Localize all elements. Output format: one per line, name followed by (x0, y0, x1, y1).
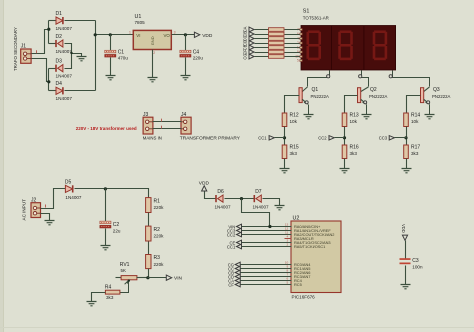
resistor R2 (146, 226, 165, 241)
resistor R14 (404, 112, 421, 126)
svg-text:5: 5 (286, 281, 288, 285)
svg-text:22u: 22u (113, 229, 121, 234)
svg-text:RC5: RC5 (294, 282, 302, 287)
node terminal CE (243, 44, 254, 50)
node junction CC3 (404, 136, 407, 139)
node junction CC1 (283, 136, 286, 139)
svg-text:220u: 220u (193, 56, 204, 61)
node junction CC2 (343, 136, 346, 139)
node display pin circle Q1 (327, 75, 330, 78)
node junction J1.1 (47, 28, 50, 31)
diode D7 (253, 189, 270, 210)
wire display digit pin Q2 (362, 71, 369, 87)
wire VIN to RA0 (242, 226, 292, 228)
wire R3 to VIN node (148, 269, 150, 278)
ground R16 (340, 169, 350, 173)
wire display digit pin Q3 (393, 71, 430, 87)
ground bridge center (77, 57, 87, 61)
node terminal CC1 (258, 136, 274, 141)
wire U1 VO to VDD (172, 34, 195, 36)
wire clamp to VIN line (242, 199, 270, 227)
transistor Q3 PN2222A (421, 87, 451, 105)
wire Q3 base (407, 96, 421, 114)
capacitor C2 (100, 221, 121, 233)
connector J1 (21, 44, 31, 64)
svg-text:TOT5361-AR: TOT5361-AR (303, 16, 329, 21)
svg-text:100n: 100n (412, 264, 423, 269)
op-amp U1 7805 regulator (129, 14, 176, 55)
wire C2 top (105, 189, 107, 222)
wire J1 pin1 to D1/D2 node (32, 30, 49, 54)
svg-text:Q1: Q1 (312, 87, 319, 93)
svg-text:R13: R13 (350, 112, 359, 118)
wire VDD to D6 (205, 192, 217, 199)
wire CC2 (335, 137, 345, 139)
node pin number mark J2 (45, 205, 47, 208)
node terminal CD in (228, 274, 240, 279)
ground C4 (181, 76, 191, 80)
wire CG to resistor (255, 56, 269, 58)
wire CE to U2 (242, 242, 292, 244)
connector J3 (143, 112, 162, 140)
node terminal CD (243, 40, 254, 46)
svg-text:CG: CG (243, 53, 248, 59)
svg-text:D1: D1 (56, 11, 63, 17)
wire D3 left (49, 68, 57, 70)
ground J2 (45, 221, 55, 225)
node junction C2 tap (104, 187, 107, 190)
node terminal VIN out (166, 275, 182, 282)
node terminal CB in (228, 270, 240, 275)
wire CD to U2 (241, 276, 292, 278)
svg-text:S1: S1 (303, 9, 310, 15)
ground Q2 emitter (362, 115, 372, 119)
wire display digit pin Q1 (308, 71, 330, 87)
node junction + bus (94, 33, 97, 36)
wire CF to resistor (255, 52, 269, 54)
svg-text:5K: 5K (121, 268, 126, 273)
svg-text:PN2222A: PN2222A (369, 94, 388, 99)
svg-text:D5: D5 (65, 179, 72, 185)
svg-text:1: 1 (129, 31, 131, 35)
svg-text:C2: C2 (113, 222, 120, 228)
svg-text:3k3: 3k3 (411, 151, 419, 156)
ground Q1 emitter (304, 115, 314, 119)
wire C4 top (185, 35, 187, 51)
node terminal CB (243, 31, 254, 37)
wire D1 left (49, 20, 57, 22)
wire C4 bottom (185, 58, 187, 76)
diode D5 (65, 179, 82, 200)
wire D5 to R1 (75, 189, 149, 198)
svg-text:5: 5 (297, 59, 299, 63)
wire R14 to R17 (406, 127, 408, 146)
svg-text:R12: R12 (290, 112, 299, 118)
ground C1 (106, 76, 116, 80)
wire R2-R3 (148, 242, 150, 255)
transistor Q1 PN2222A (299, 87, 329, 105)
svg-text:MAINS IN: MAINS IN (143, 135, 162, 140)
svg-text:1N4007: 1N4007 (56, 26, 73, 31)
svg-text:RV1: RV1 (120, 262, 130, 268)
node display pin circle Q2 (359, 75, 362, 78)
wire U1 GND pin (152, 50, 154, 78)
svg-text:220k: 220k (154, 262, 165, 267)
resistor R10 segment (269, 50, 285, 54)
wire CC1 to U2 (242, 246, 292, 248)
wire resistor to display pin CE (285, 47, 300, 49)
svg-text:C1: C1 (118, 49, 125, 55)
svg-text:1N4007: 1N4007 (253, 204, 270, 209)
svg-text:Q3: Q3 (433, 87, 440, 93)
node VDD power terminal (194, 32, 212, 39)
node terminal CF (243, 49, 254, 55)
ground Q3 emitter (425, 115, 435, 119)
wire CC1 (275, 137, 285, 139)
svg-text:10k: 10k (290, 119, 298, 124)
svg-text:PN2222A: PN2222A (311, 94, 330, 99)
svg-text:470u: 470u (118, 56, 129, 61)
capacitor C1 (105, 49, 129, 60)
svg-text:1N4007: 1N4007 (56, 96, 73, 101)
svg-text:VO: VO (164, 33, 171, 38)
wire resistor to display pin CF (285, 52, 300, 54)
svg-text:TRAFO SECONDARY: TRAFO SECONDARY (13, 27, 18, 71)
wire R17 to ground (406, 159, 408, 169)
node pin number marks J3-J4 (161, 119, 163, 129)
node junction J1.2 (47, 80, 50, 83)
wire CC to U2 (241, 268, 292, 270)
wire R12 to R15 (284, 127, 286, 146)
svg-text:R3: R3 (154, 255, 161, 261)
node junction RV1 wiper (128, 279, 130, 281)
svg-text:VI: VI (136, 33, 140, 38)
svg-text:U2: U2 (293, 215, 300, 221)
wire bus D3-D4 left (48, 69, 50, 91)
wire VIN out (148, 277, 167, 279)
wire Q3 emitter to ground (429, 105, 431, 115)
svg-text:220V - 18V transformer used: 220V - 18V transformer used (76, 126, 137, 131)
svg-text:D7: D7 (255, 189, 262, 195)
wire D2 left (49, 43, 57, 45)
wire Q2 emitter to ground (366, 105, 368, 115)
svg-text:10k: 10k (411, 119, 419, 124)
wire C1 top (110, 35, 112, 51)
wire R13 to R16 (344, 127, 346, 146)
wire CA to resistor (255, 29, 269, 31)
svg-text:R17: R17 (411, 144, 420, 150)
svg-text:U1: U1 (135, 14, 142, 20)
svg-text:R14: R14 (411, 112, 420, 118)
svg-text:R4: R4 (105, 285, 112, 291)
svg-text:1N4007: 1N4007 (215, 204, 232, 209)
svg-text:VDD: VDD (401, 224, 406, 233)
svg-text:R1: R1 (154, 198, 161, 204)
wire J3-J4 bottom (153, 128, 182, 130)
svg-text:CC2: CC2 (318, 136, 327, 141)
svg-text:1N4007: 1N4007 (56, 74, 73, 79)
node terminal CC2 in (227, 232, 242, 237)
node VDD power terminal C3 (401, 224, 407, 240)
svg-text:PIC16F676: PIC16F676 (292, 294, 316, 299)
display S1 TOT5361-AR (295, 9, 395, 70)
wire D4 cathode to + bus (65, 90, 96, 92)
resistor R9 segment (269, 46, 285, 50)
wire C3 to ground (405, 266, 407, 285)
ground U1 (148, 78, 158, 82)
svg-text:2: 2 (286, 243, 288, 247)
node terminal CG in (228, 262, 240, 267)
svg-text:VIN: VIN (174, 276, 183, 282)
wire Q2 base (345, 96, 358, 114)
svg-text:Q2: Q2 (370, 87, 377, 93)
wire D3 cathode to ground node (65, 54, 72, 69)
wire J1 pin2 to D3/D4 node (32, 59, 49, 82)
resistor R6 segment (269, 32, 285, 36)
diode D1 (56, 11, 73, 31)
wire Q1 base (285, 96, 300, 114)
node terminal CG (243, 53, 254, 59)
svg-text:CC1: CC1 (227, 244, 236, 249)
wire D7 to ground (263, 199, 280, 206)
resistor R5 segment (269, 28, 285, 32)
diode D3 (56, 59, 73, 79)
wire CB to U2 (241, 272, 292, 274)
wire resistor to display pin CA (285, 29, 300, 31)
svg-text:3k3: 3k3 (106, 295, 114, 300)
diode D2 (56, 34, 73, 54)
wire resistor to display pin CC (285, 38, 300, 40)
ground R17 (402, 169, 412, 173)
wire R1-R2 (148, 213, 150, 227)
wire CE to resistor (255, 47, 269, 49)
resistor R11 segment (269, 55, 285, 59)
wire C2 bottom (105, 229, 107, 246)
wire D4 left (49, 90, 57, 92)
wire J2 pin2 to ground (41, 214, 50, 221)
svg-text:VDD: VDD (202, 33, 213, 39)
node junction clamp (240, 197, 243, 200)
wire RV1 wiper to R4 (120, 281, 129, 293)
svg-text:3k3: 3k3 (350, 151, 358, 156)
svg-text:TRANSFORMER PRIMARY: TRANSFORMER PRIMARY (180, 135, 241, 141)
capacitor C3 (400, 258, 423, 269)
wire R16 to ground (344, 159, 346, 169)
wire + bus (95, 21, 97, 91)
ground C2 (101, 246, 111, 250)
svg-text:RA5/T1CKI/OSC1: RA5/T1CKI/OSC1 (294, 244, 325, 249)
ground R4 (87, 302, 97, 306)
resistor R7 segment (269, 37, 285, 41)
svg-text:1N4007: 1N4007 (56, 49, 73, 54)
resistor R4 (105, 285, 120, 300)
wire VDD to C3 (405, 241, 407, 259)
resistor R15 (282, 144, 299, 158)
svg-text:1N4007: 1N4007 (65, 195, 82, 200)
ground D7 (275, 206, 285, 210)
wire CG to U2 (241, 264, 292, 266)
wire resistor to display pin CD (285, 43, 300, 45)
svg-text:C3: C3 (412, 258, 419, 264)
wire CC to resistor (255, 38, 269, 40)
wire CC2 to U2 (242, 234, 292, 236)
resistor R3 (146, 255, 165, 269)
svg-text:2: 2 (153, 51, 155, 55)
svg-text:R2: R2 (154, 227, 161, 233)
diode D6 (215, 189, 232, 210)
wire D1 cathode to + bus (65, 20, 96, 22)
node junction C4 tap (184, 33, 187, 36)
wire rectifier output to U1 VI (96, 34, 134, 36)
svg-text:GND: GND (150, 36, 155, 45)
svg-text:AC INPUT: AC INPUT (22, 199, 27, 221)
ground R15 (280, 169, 290, 173)
resistor R17 (404, 144, 421, 158)
node junction VIN (146, 276, 149, 279)
svg-text:D4: D4 (56, 81, 63, 87)
wire resistor to display pin CG (285, 56, 300, 58)
wire bus D1-D2 left (48, 21, 50, 44)
op-amp U2 PIC16F676 (285, 215, 341, 299)
node pin number mark J1 (36, 50, 38, 53)
node junction clamp-VIN (268, 225, 271, 228)
wire D6 to D7 (225, 198, 255, 200)
node terminal VIN in (228, 224, 241, 229)
wire C1 bottom (110, 58, 112, 76)
wire CA to U2 (241, 280, 292, 282)
wire CD to resistor (255, 43, 269, 45)
svg-text:CF: CF (228, 282, 234, 287)
node terminal CE in (229, 240, 241, 245)
svg-text:220k: 220k (154, 205, 165, 210)
node terminal CC3 (379, 136, 395, 141)
svg-text:C4: C4 (193, 49, 200, 55)
wire CC3 (395, 137, 407, 139)
svg-text:R15: R15 (290, 144, 299, 150)
wire CB to resistor (255, 34, 269, 36)
node terminal CC in (228, 266, 240, 271)
svg-text:CC3: CC3 (379, 136, 388, 141)
connector J4 (180, 112, 241, 141)
node terminal CC3 in (227, 228, 242, 233)
node junction D2/D3 (70, 52, 72, 54)
node terminal CC (243, 35, 254, 41)
wire R15 to ground (284, 159, 286, 169)
svg-text:CC2: CC2 (227, 232, 236, 237)
svg-text:220k: 220k (154, 234, 165, 239)
wire J2 pin1 to D5 (41, 189, 66, 209)
node terminal CC2 (318, 136, 334, 141)
transistor Q2 PN2222A (358, 87, 388, 105)
node terminal CF in (228, 282, 240, 287)
resistor R8 segment (269, 41, 285, 45)
capacitor C4 (180, 49, 203, 60)
svg-text:D2: D2 (56, 34, 63, 40)
svg-text:3k3: 3k3 (290, 151, 298, 156)
svg-text:D3: D3 (56, 59, 63, 65)
wire resistor to display pin CB (285, 34, 300, 36)
potentiometer RV1 5K (116, 262, 148, 284)
wire D2 cathode to ground node (65, 44, 82, 57)
wire RA3 MCLR stub (285, 238, 292, 240)
wire Q1 emitter to ground (308, 105, 310, 115)
resistor R12 (282, 112, 299, 126)
resistor R16 (342, 144, 359, 158)
svg-text:7805: 7805 (135, 20, 146, 25)
wire R4 to ground (92, 293, 106, 302)
node terminal CC1 in (227, 244, 242, 249)
svg-text:10k: 10k (350, 119, 358, 124)
wire CC3 to U2 (242, 230, 292, 232)
node display pin circle Q3 (389, 75, 392, 78)
node junction C1 tap (109, 33, 112, 36)
svg-text:R16: R16 (350, 144, 359, 150)
svg-text:CC1: CC1 (258, 136, 267, 141)
resistor R1 (146, 198, 165, 213)
diode D4 (56, 81, 73, 101)
svg-text:D6: D6 (217, 189, 224, 195)
node terminal CA (243, 26, 254, 32)
wire J3-J4 top (153, 121, 182, 123)
svg-text:PN2222A: PN2222A (432, 94, 451, 99)
connector J2 (31, 197, 41, 217)
ground C3 (401, 285, 411, 289)
node VDD power terminal clamp (199, 180, 210, 191)
resistor R13 (342, 112, 359, 126)
wire CF to U2 (241, 284, 292, 286)
node terminal CA in (228, 278, 240, 283)
